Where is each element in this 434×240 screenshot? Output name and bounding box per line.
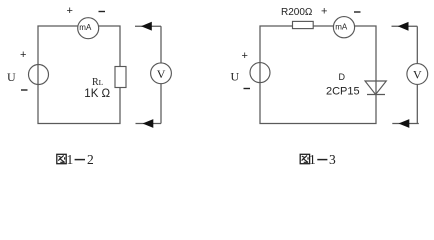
- svg-text:V: V: [413, 68, 422, 82]
- resistor R on top wire: [293, 21, 314, 28]
- svg-text:U: U: [7, 70, 16, 84]
- svg-text:D: D: [339, 72, 346, 82]
- top probe arrowhead right: [398, 22, 409, 31]
- svg-text:1: 1: [67, 152, 74, 167]
- diode D on right wire: [365, 81, 386, 95]
- caption 图1-2: [57, 154, 66, 163]
- minus label source: [21, 89, 28, 91]
- wire down to voltmeter: [160, 26, 162, 63]
- svg-text:mA: mA: [79, 23, 92, 32]
- diode cathode bar: [367, 94, 385, 96]
- svg-text:+: +: [242, 50, 248, 62]
- svg-text:V: V: [157, 67, 166, 81]
- svg-text:+: +: [321, 6, 327, 18]
- wire below voltmeter: [160, 84, 162, 124]
- svg-text:mA: mA: [335, 22, 348, 31]
- voltmeter branch right: top probe wire: [392, 25, 418, 27]
- svg-text:RL: RL: [92, 77, 104, 88]
- wire down to voltmeter right: [416, 26, 418, 63]
- source U left: [29, 65, 49, 85]
- svg-text:2: 2: [87, 152, 94, 167]
- bottom probe wire: [136, 123, 162, 125]
- voltmeter branch left: top probe wire: [135, 25, 161, 27]
- svg-text:3: 3: [329, 152, 336, 167]
- svg-text:2CP15: 2CP15: [326, 86, 360, 98]
- voltmeter V left: [151, 63, 172, 84]
- svg-text:1K Ω: 1K Ω: [84, 88, 110, 100]
- minus label above ammeter right: [354, 11, 361, 13]
- voltmeter V right: [407, 64, 428, 85]
- minus label source right: [244, 88, 251, 90]
- svg-text:U: U: [231, 69, 240, 83]
- bottom probe wire right: [392, 123, 419, 125]
- svg-text:R200Ω: R200Ω: [281, 7, 313, 18]
- bottom probe arrowhead: [143, 119, 154, 128]
- svg-text:+: +: [20, 49, 26, 61]
- wire loop right circuit: [260, 26, 376, 124]
- caption 图1-3: [300, 154, 309, 163]
- ammeter mA right: [333, 17, 354, 38]
- bottom probe arrowhead right: [399, 119, 410, 128]
- top probe arrowhead: [141, 22, 152, 31]
- svg-text:1: 1: [309, 152, 316, 167]
- minus label above ammeter: [99, 11, 106, 13]
- wire loop left circuit: [38, 26, 120, 124]
- svg-text:+: +: [67, 5, 73, 17]
- source U right: [250, 63, 270, 83]
- wire below voltmeter right: [416, 84, 418, 123]
- resistor RL: [115, 67, 126, 88]
- ammeter mA left: [78, 18, 99, 39]
